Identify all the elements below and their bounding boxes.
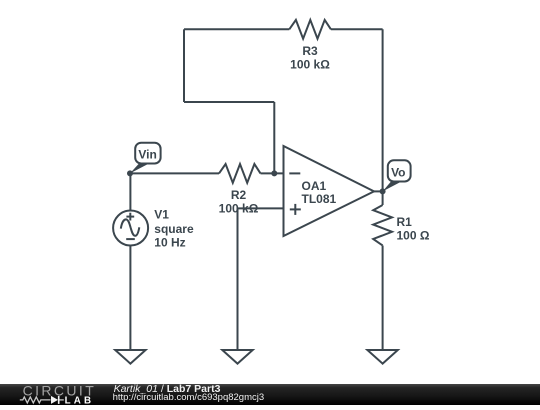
voltage source V1 circle xyxy=(113,211,148,246)
op-amp inverting input minus symbol xyxy=(289,172,300,174)
resistor R2 zigzag xyxy=(219,164,261,183)
svg-text:100 Ω: 100 Ω xyxy=(397,229,430,243)
svg-text:100 kΩ: 100 kΩ xyxy=(219,201,259,215)
logo diode xyxy=(51,395,58,403)
footer title text xyxy=(114,384,221,395)
node Vo flag box xyxy=(388,160,411,181)
wire op-amp output to Vo node xyxy=(374,190,383,192)
wire feedback horizontal middle xyxy=(184,101,274,103)
CircuitLab logo xyxy=(0,384,120,406)
op-amp non-inverting input plus symbol xyxy=(290,208,301,210)
wire R3 to right column xyxy=(331,28,383,30)
footer bar xyxy=(0,384,540,406)
voltage source V1 minus symbol xyxy=(126,238,135,240)
node Vin flag box xyxy=(135,143,160,164)
wire R1 to right ground xyxy=(382,246,384,351)
svg-text:100 kΩ: 100 kΩ xyxy=(290,57,330,71)
wire feedback vertical left xyxy=(183,29,185,102)
resistor R3 zigzag xyxy=(289,20,331,39)
ground left xyxy=(115,350,145,364)
node Vin flag pointer xyxy=(130,164,149,174)
ground middle xyxy=(222,350,252,364)
junction dot inverting feedback node xyxy=(271,170,277,176)
svg-text:TL081: TL081 xyxy=(302,192,337,206)
logo resistor squiggle xyxy=(20,396,51,402)
wire R2 to op-amp inverting input xyxy=(261,172,284,174)
wire Vin node to R2 xyxy=(130,172,219,174)
ground right xyxy=(367,350,397,364)
wire Vo node to R1 xyxy=(382,191,384,205)
wire top left to R3 xyxy=(184,28,289,30)
svg-text:LAB: LAB xyxy=(65,395,95,405)
resistor R1 zigzag xyxy=(373,205,392,246)
wire V1 to left ground xyxy=(129,246,131,351)
wire feedback vertical from inverting node xyxy=(273,102,275,173)
voltage source V1 plus symbol xyxy=(126,216,134,218)
svg-text:V1: V1 xyxy=(154,208,169,222)
voltage source V1 sine symbol xyxy=(121,219,140,235)
svg-text:R1: R1 xyxy=(397,215,413,229)
wire middle column to ground xyxy=(237,208,239,350)
svg-text:square: square xyxy=(154,222,194,236)
wire right column vertical to Vo node xyxy=(382,29,384,191)
svg-text:R3: R3 xyxy=(302,44,318,58)
svg-text:Vin: Vin xyxy=(138,147,156,161)
node Vo flag pointer xyxy=(383,182,402,192)
wire Vin node to V1 xyxy=(129,173,131,210)
wire non-inverting input horizontal xyxy=(238,207,284,209)
svg-text:R2: R2 xyxy=(231,188,247,202)
op-amp OA1 triangle xyxy=(284,146,375,236)
footer url text xyxy=(113,393,265,403)
svg-text:Vo: Vo xyxy=(391,165,405,179)
junction dot node Vin xyxy=(127,170,133,176)
junction dot Vo node xyxy=(380,188,386,194)
svg-text:10 Hz: 10 Hz xyxy=(154,236,185,250)
